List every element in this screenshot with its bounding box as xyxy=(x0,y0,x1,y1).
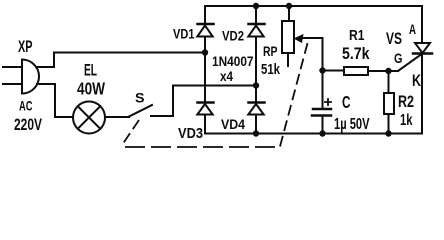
svg-text:x4: x4 xyxy=(220,68,233,84)
switch S blade xyxy=(129,105,152,117)
junction node gate R1 R2 xyxy=(385,68,391,74)
svg-text:1N4007: 1N4007 xyxy=(212,53,254,69)
potentiometer RP wiper wire xyxy=(301,38,323,71)
junction node RP top xyxy=(286,3,292,9)
diode VD2 cathode bar xyxy=(249,23,265,26)
svg-text:C: C xyxy=(342,92,351,112)
wire gate diagonal into VS xyxy=(398,55,421,72)
potentiometer RP wiper arrowhead xyxy=(294,34,304,43)
plug XP prong upper xyxy=(3,66,22,68)
wire R2 top lead xyxy=(388,71,390,93)
junction node AC2 at VD2-VD4 xyxy=(253,82,259,88)
svg-text:VS: VS xyxy=(386,30,402,48)
wire AC line 1 from plug to bridge xyxy=(54,52,205,54)
wire node to R1 xyxy=(323,70,345,72)
svg-text:5.7k: 5.7k xyxy=(342,45,370,63)
potentiometer RP bottom stub xyxy=(287,53,289,66)
diode VD1 triangle xyxy=(197,26,212,37)
wire corner up to AC line 1 xyxy=(53,53,55,68)
capacitor C top plate xyxy=(313,108,331,111)
wire AC line 2 horizontal to bridge xyxy=(173,85,256,87)
svg-text:VD3: VD3 xyxy=(178,125,203,142)
wire capacitor C top lead xyxy=(322,71,324,109)
wire VD3 anode lead to bottom rail xyxy=(204,115,206,134)
junction node C bottom rail xyxy=(319,130,325,136)
junction node VD4 bottom rail xyxy=(253,130,259,136)
junction node AC1 at VD1 xyxy=(202,49,208,55)
svg-text:A: A xyxy=(409,21,416,37)
wire corner down to lamp row xyxy=(54,84,56,117)
wire plug upper output xyxy=(36,66,54,68)
wire cathode lead of VS down to bottom rail xyxy=(421,54,423,134)
lamp EL circle xyxy=(73,102,105,134)
wire AC line 2 vertical riser xyxy=(172,86,174,117)
svg-text:G: G xyxy=(394,50,403,66)
svg-text:RP: RP xyxy=(263,43,278,59)
diode VD3 cathode bar xyxy=(198,101,214,104)
svg-text:K: K xyxy=(412,72,421,90)
wire plug lower output xyxy=(37,83,55,85)
wire top DC+ rail xyxy=(205,5,422,7)
diode VD2 triangle xyxy=(248,26,263,37)
capacitor C plus sign xyxy=(325,99,331,105)
wire RP top lead xyxy=(288,6,290,21)
diode VD4 triangle xyxy=(248,104,263,115)
wire switch to riser xyxy=(151,115,173,117)
resistor R2 body xyxy=(384,93,394,114)
wire R1 to gate node xyxy=(368,70,398,72)
wire VD2 top lead xyxy=(255,6,257,24)
svg-text:1k: 1k xyxy=(400,112,413,129)
wire VD1 top lead xyxy=(204,6,206,24)
thyristor VS triangle xyxy=(415,43,430,53)
wire VD1 anode to VD3 cathode column xyxy=(204,37,206,103)
thyristor VS cathode bar xyxy=(413,52,432,55)
potentiometer RP body xyxy=(282,21,294,53)
wire VD2 anode to VD4 cathode column xyxy=(255,37,257,103)
wire lamp to switch xyxy=(105,116,129,118)
diode VD1 cathode bar xyxy=(198,23,214,26)
plug XP body xyxy=(22,60,39,94)
svg-text:VD2: VD2 xyxy=(222,28,244,44)
svg-text:51k: 51k xyxy=(261,61,280,78)
capacitor C bottom plate xyxy=(312,114,331,117)
dashed mechanical link to RP wiper xyxy=(280,38,309,147)
wire bottom DC- rail xyxy=(205,133,422,135)
diode VD4 cathode bar xyxy=(249,101,265,104)
wire R2 bottom lead xyxy=(388,114,390,134)
svg-text:VD4: VD4 xyxy=(221,116,245,132)
lamp EL cross xyxy=(78,106,101,129)
junction node wiper R1 C xyxy=(319,67,325,73)
dashed mechanical link from switch xyxy=(121,120,139,147)
svg-text:AC: AC xyxy=(19,98,33,114)
resistor R1 body xyxy=(344,67,368,75)
svg-text:S: S xyxy=(135,90,145,106)
wire to lamp xyxy=(55,116,73,118)
svg-text:XP: XP xyxy=(18,38,33,56)
junction node R2 bottom rail xyxy=(385,130,391,136)
svg-text:VD1: VD1 xyxy=(173,26,195,42)
svg-text:40W: 40W xyxy=(77,79,105,99)
diode VD3 triangle xyxy=(197,104,212,115)
plug XP prong lower xyxy=(3,83,22,85)
dashed mechanical link horizontal xyxy=(125,146,279,148)
junction node VD2 top xyxy=(253,3,259,9)
svg-text:220V: 220V xyxy=(14,116,42,134)
svg-text:R2: R2 xyxy=(398,92,414,111)
wire VD4 anode lead to bottom rail xyxy=(255,115,257,134)
svg-text:R1: R1 xyxy=(349,27,365,44)
wire capacitor C bottom lead xyxy=(322,117,324,134)
svg-text:1µ 50V: 1µ 50V xyxy=(334,116,370,133)
svg-text:EL: EL xyxy=(84,62,97,80)
wire right rail anode lead of VS xyxy=(421,6,423,43)
